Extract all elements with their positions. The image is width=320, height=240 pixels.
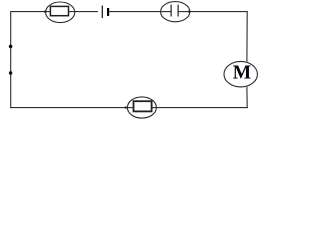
wire bottom-left horizontal [10,107,126,109]
resistor R-bottom (rectangle in ellipse) [127,97,156,118]
battery long plate [101,6,103,19]
node junction dot at left lead of top resistor [44,10,46,12]
capacitor plate 1 [170,5,172,17]
resistor R-top (rectangle in ellipse) [46,2,75,23]
wire right side upper vertical [246,12,248,62]
wire right side lower vertical [246,87,248,108]
battery short thick plate [107,8,109,16]
svg-text:M: M [233,63,251,84]
wire capacitor to top-right corner [190,11,248,13]
wire battery to capacitor [109,11,160,13]
switch S terminal dot upper [9,45,13,49]
switch S terminal dot lower [9,71,12,74]
node junction dot at left of bottom resistor [125,106,127,108]
wire left side vertical [10,11,12,108]
battery cell [102,6,109,19]
wire top-left horizontal [11,11,46,13]
capacitor C (two plates in ellipse) [161,2,190,22]
wire bottom-right horizontal [156,107,247,109]
node junction dot at right of capacitor [188,10,190,12]
wire resistor to battery [75,11,98,13]
capacitor plate 2 [177,5,179,17]
motor M [224,61,257,87]
